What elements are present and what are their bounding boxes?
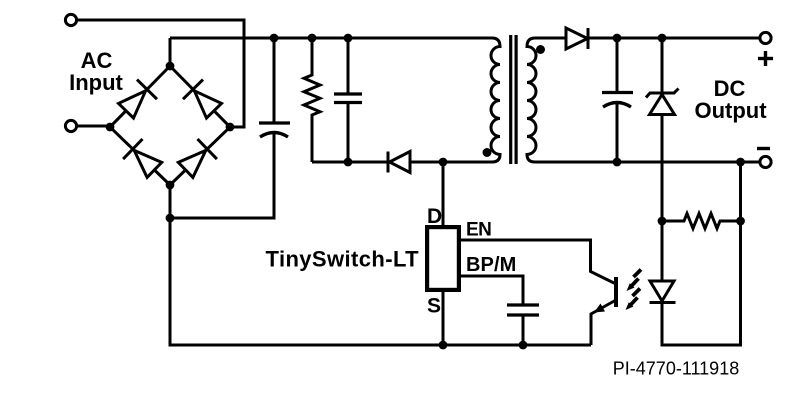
diode D5 (clamp, points left) — [388, 152, 410, 173]
transformer secondary winding — [527, 38, 760, 162]
node: cap return on left rail — [166, 214, 175, 223]
node: + bus / zener — [658, 34, 667, 43]
wire: S pin — [442, 292, 445, 345]
photon arrow 1 — [627, 270, 642, 292]
DC output terminal - — [760, 156, 771, 167]
node: clamp cap on clamp bus — [344, 158, 353, 167]
node: top bus / snubber resistor — [308, 34, 317, 43]
zener diode VR1 — [646, 38, 679, 281]
svg-text:Output: Output — [694, 98, 767, 123]
AC input terminal top — [65, 14, 76, 25]
node: return rail / feedback branch — [736, 158, 745, 167]
node: bypass cap on bottom bus — [519, 341, 528, 350]
secondary polarity dot — [536, 45, 545, 54]
node: top bus / snubber cap — [344, 34, 353, 43]
DC output terminal + — [760, 32, 771, 43]
svg-text:Input: Input — [69, 70, 123, 95]
AC input terminal bottom — [65, 120, 76, 131]
wire: output + bus — [588, 37, 760, 40]
capacitor C2 (clamp) — [334, 38, 362, 162]
node: S pin on bottom bus — [439, 341, 448, 350]
svg-text:S: S — [427, 295, 441, 318]
bridge diode upper-right — [183, 80, 222, 119]
bridge diode lower-right — [178, 139, 217, 177]
resistor R2 (feedback) — [662, 214, 741, 229]
wire: D pin — [442, 162, 445, 225]
node: bridge bottom vertex — [166, 181, 175, 190]
bridge diamond wires — [110, 66, 230, 185]
node: return rail / output cap — [613, 158, 622, 167]
node: bridge top vertex — [166, 62, 175, 71]
wire: left return rail — [170, 185, 591, 345]
capacitor C1 (input filter) — [170, 38, 290, 218]
resistor R1 (clamp) — [304, 38, 320, 162]
svg-text:TinySwitch-LT: TinySwitch-LT — [266, 247, 420, 272]
svg-text:D: D — [427, 205, 442, 228]
wire: BP/M pin — [461, 276, 523, 305]
transformer core — [511, 35, 516, 164]
wire: feedback branch rail — [662, 162, 741, 345]
node: bridge left vertex — [106, 123, 115, 132]
bridge diode lower-left — [123, 139, 162, 177]
opto emitter arrowhead — [594, 304, 605, 313]
capacitor C4 (bypass) — [507, 305, 539, 345]
node: top bus / input cap — [270, 34, 279, 43]
svg-text:EN: EN — [466, 220, 491, 241]
node: bridge right vertex — [226, 123, 235, 132]
capacitor C3 (output) — [602, 38, 633, 162]
optocoupler phototransistor base bar — [614, 277, 618, 307]
node: drain node on clamp bus — [439, 158, 448, 167]
photon arrow 2 — [626, 289, 641, 311]
node: zener/LED/resistor junction — [658, 217, 667, 226]
IC U1 TinySwitch-LT body — [427, 227, 459, 290]
bridge diode upper-left — [119, 80, 158, 119]
wire: top bus + transformer primary winding — [170, 38, 500, 162]
svg-text:BP/M: BP/M — [466, 254, 516, 276]
wire: top terminal to bridge right vertex — [77, 20, 244, 127]
opto collector wire to EN — [461, 240, 616, 284]
LED of optocoupler (points down) — [650, 281, 676, 303]
node: + bus / output cap — [613, 34, 622, 43]
label plus — [758, 51, 773, 66]
primary polarity dot — [483, 148, 492, 157]
diode D6 (output rectifier) — [566, 28, 588, 49]
opto emitter wire — [591, 300, 616, 345]
label minus — [757, 147, 770, 150]
wire: bottom terminal to bridge left vertex — [77, 125, 110, 128]
node: resistor to rail junction — [736, 217, 745, 226]
wire: bridge top vertex to top bus — [169, 38, 172, 66]
svg-text:PI-4770-111918: PI-4770-111918 — [613, 359, 739, 379]
